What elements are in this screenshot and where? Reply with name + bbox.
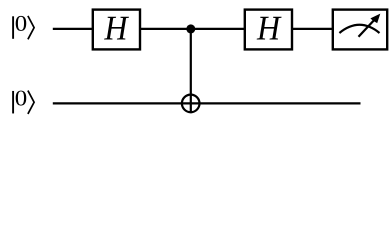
measurement needle: [359, 14, 381, 37]
ket |0> q0: [13, 16, 34, 39]
measurement box: [333, 10, 387, 50]
wire q0: [53, 28, 333, 30]
wire q1: [53, 102, 361, 104]
gate H2 box: [245, 10, 292, 50]
gate H1 label: [104, 17, 129, 40]
gate H2 label: [257, 17, 282, 40]
ket |0> q1: [13, 91, 34, 114]
wire control vertical: [190, 29, 192, 113]
CNOT target q1: [182, 95, 200, 113]
gate H1 box: [93, 10, 140, 50]
measurement arc: [339, 25, 379, 33]
control dot q0: [186, 24, 195, 33]
